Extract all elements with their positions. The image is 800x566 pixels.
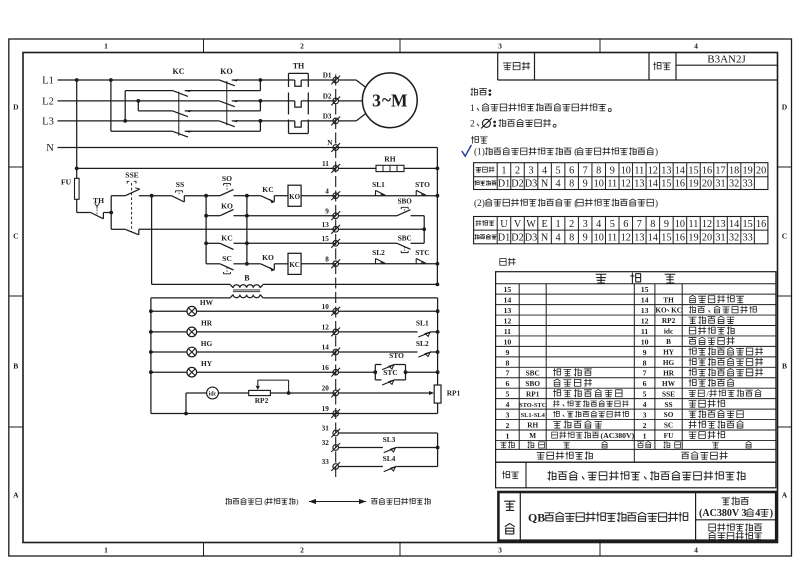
svg-text:L3: L3: [42, 117, 54, 128]
svg-text:L2: L2: [42, 97, 54, 108]
svg-text:SL2: SL2: [416, 339, 429, 348]
svg-text:14: 14: [675, 165, 685, 176]
svg-text:31: 31: [715, 179, 725, 190]
svg-text:4: 4: [505, 400, 509, 409]
svg-text:8: 8: [643, 358, 647, 367]
svg-text:D2: D2: [323, 93, 332, 101]
svg-text:20: 20: [322, 385, 330, 393]
svg-text:13: 13: [661, 165, 671, 176]
svg-text:QB: QB: [528, 510, 545, 524]
svg-text:KC: KC: [173, 67, 185, 76]
svg-text:M: M: [529, 431, 536, 440]
svg-text:4: 4: [325, 187, 329, 195]
svg-text:8: 8: [650, 219, 655, 230]
svg-text:19: 19: [322, 405, 330, 413]
svg-text:SC: SC: [222, 254, 232, 263]
svg-text:8: 8: [569, 233, 574, 244]
svg-text:TH: TH: [663, 295, 674, 304]
svg-text:SBO: SBO: [398, 197, 413, 205]
svg-text:FU: FU: [61, 178, 72, 187]
svg-text:KC: KC: [221, 234, 232, 243]
svg-text:SBO: SBO: [525, 379, 540, 388]
svg-text:15: 15: [688, 165, 698, 176]
svg-text:16: 16: [675, 179, 685, 190]
svg-text:3: 3: [505, 411, 509, 420]
svg-text:18: 18: [729, 165, 739, 176]
svg-text:D2: D2: [511, 179, 523, 190]
svg-text:20: 20: [756, 165, 766, 176]
svg-text:1: 1: [643, 431, 647, 440]
svg-text:8: 8: [325, 255, 329, 263]
svg-text:4: 4: [596, 219, 601, 230]
svg-text:D3: D3: [525, 233, 537, 244]
svg-text:3: 3: [498, 545, 502, 554]
svg-text:KO: KO: [289, 193, 300, 201]
svg-text:): ): [655, 147, 658, 157]
svg-text:HY: HY: [663, 348, 675, 357]
svg-text:B: B: [666, 337, 671, 346]
svg-text:2: 2: [300, 41, 304, 50]
svg-text:4: 4: [694, 545, 698, 554]
svg-text:B: B: [244, 273, 250, 282]
svg-text:9: 9: [505, 348, 509, 357]
svg-text:32: 32: [729, 233, 739, 244]
svg-text:8: 8: [569, 179, 574, 190]
svg-text:19: 19: [688, 233, 698, 244]
svg-text:10: 10: [641, 337, 649, 346]
svg-text:13: 13: [634, 233, 644, 244]
svg-text:14: 14: [729, 219, 739, 230]
svg-text:D2: D2: [511, 233, 523, 244]
svg-text:SL2: SL2: [372, 248, 385, 257]
svg-text:15: 15: [661, 179, 671, 190]
svg-text:14: 14: [641, 296, 649, 305]
svg-text:13: 13: [504, 306, 512, 315]
svg-text:15: 15: [661, 233, 671, 244]
svg-text:14: 14: [504, 296, 512, 305]
svg-text:): ): [296, 497, 299, 506]
svg-text:33: 33: [743, 179, 753, 190]
svg-text:HW: HW: [200, 298, 214, 307]
svg-text:STC: STC: [383, 368, 397, 377]
svg-text:C: C: [13, 232, 18, 241]
svg-text:4: 4: [694, 41, 698, 50]
svg-text:10: 10: [322, 303, 330, 311]
svg-text:14: 14: [648, 179, 658, 190]
svg-text:15: 15: [504, 285, 512, 294]
svg-text:11: 11: [607, 179, 617, 190]
svg-text:13: 13: [715, 219, 725, 230]
svg-text:11: 11: [634, 165, 644, 176]
svg-text:D: D: [782, 103, 788, 112]
svg-text:SSE: SSE: [125, 171, 139, 180]
svg-text:9: 9: [643, 348, 647, 357]
svg-text:SO: SO: [222, 174, 232, 183]
svg-text:KO: KO: [655, 306, 667, 315]
svg-text:12: 12: [322, 324, 330, 332]
svg-text:4: 4: [755, 508, 760, 519]
svg-text:(: (: [574, 147, 577, 157]
svg-text:8: 8: [596, 165, 601, 176]
svg-text:12: 12: [621, 233, 631, 244]
svg-text:11: 11: [607, 233, 617, 244]
svg-text:(2): (2): [474, 199, 485, 209]
svg-text:16: 16: [675, 233, 685, 244]
svg-text:RP2: RP2: [255, 396, 269, 405]
svg-text:1: 1: [556, 219, 561, 230]
svg-text:E: E: [541, 219, 547, 230]
svg-text:4: 4: [556, 179, 561, 190]
svg-text:9: 9: [583, 179, 588, 190]
svg-text:C: C: [782, 232, 787, 241]
svg-text:33: 33: [322, 458, 330, 466]
svg-text:1: 1: [501, 165, 506, 176]
svg-text:SL1: SL1: [372, 180, 385, 189]
svg-text:19: 19: [688, 179, 698, 190]
svg-text:32: 32: [729, 179, 739, 190]
svg-text:20: 20: [702, 233, 712, 244]
svg-text:D1: D1: [498, 179, 510, 190]
svg-text:RP2: RP2: [662, 316, 676, 325]
svg-text:2: 2: [470, 119, 475, 129]
svg-text:HW: HW: [662, 379, 676, 388]
svg-text:11: 11: [689, 219, 699, 230]
svg-text:N: N: [541, 179, 549, 190]
svg-text:12: 12: [641, 316, 649, 325]
svg-text:11: 11: [641, 327, 648, 336]
svg-text:15: 15: [322, 235, 330, 243]
svg-text:31: 31: [322, 425, 330, 433]
svg-text:SS: SS: [176, 180, 184, 189]
svg-text:11: 11: [504, 327, 511, 336]
svg-text:L1: L1: [42, 76, 54, 87]
svg-text:SL1: SL1: [416, 319, 429, 328]
svg-text:20: 20: [702, 179, 712, 190]
svg-text:KO: KO: [262, 253, 274, 262]
svg-text:1: 1: [470, 104, 475, 114]
svg-text:D1: D1: [498, 233, 510, 244]
svg-text:idc: idc: [664, 327, 674, 336]
svg-text:3: 3: [643, 411, 647, 420]
svg-text:6: 6: [505, 379, 509, 388]
svg-text:6: 6: [643, 379, 647, 388]
svg-text:N: N: [541, 233, 549, 244]
svg-text:): ): [770, 508, 773, 519]
svg-text:idc: idc: [209, 391, 217, 397]
svg-text:N: N: [46, 143, 54, 154]
svg-text:U: U: [500, 219, 508, 230]
svg-text:9: 9: [583, 233, 588, 244]
svg-text:17: 17: [715, 165, 725, 176]
svg-text:SSE: SSE: [662, 389, 675, 398]
svg-text:SO: SO: [664, 410, 674, 419]
svg-text:5: 5: [610, 219, 615, 230]
svg-text:31: 31: [715, 233, 725, 244]
svg-text:7: 7: [643, 369, 647, 378]
svg-text:1: 1: [104, 545, 108, 554]
svg-text:19: 19: [743, 165, 753, 176]
svg-text:D3: D3: [525, 179, 537, 190]
svg-text:7: 7: [505, 369, 509, 378]
svg-text:HR: HR: [663, 368, 675, 377]
svg-text:HR: HR: [201, 319, 213, 328]
svg-text:FU: FU: [664, 431, 674, 440]
svg-text:10: 10: [594, 233, 604, 244]
svg-text:STO: STO: [415, 180, 430, 189]
svg-text:13: 13: [634, 179, 644, 190]
svg-text:12: 12: [621, 179, 631, 190]
svg-text:D3: D3: [323, 113, 332, 121]
svg-text:14: 14: [648, 233, 658, 244]
svg-text:12: 12: [504, 316, 512, 325]
svg-text:14: 14: [322, 344, 330, 352]
svg-text:13: 13: [641, 306, 649, 315]
svg-text:5: 5: [556, 165, 561, 176]
svg-text:1: 1: [104, 41, 108, 50]
svg-text:9: 9: [610, 165, 615, 176]
svg-text:(: (: [264, 497, 267, 506]
svg-text:9: 9: [664, 219, 669, 230]
svg-text:2: 2: [643, 421, 647, 430]
svg-text:): ): [655, 198, 658, 208]
svg-text:B: B: [782, 362, 787, 371]
svg-text:6: 6: [569, 165, 574, 176]
svg-text:5: 5: [505, 390, 509, 399]
svg-text:2: 2: [515, 165, 520, 176]
svg-text:RH: RH: [527, 421, 538, 430]
svg-text:KC: KC: [262, 185, 273, 194]
svg-text:SS: SS: [664, 400, 672, 409]
svg-text:10: 10: [621, 165, 631, 176]
svg-text:HY: HY: [201, 359, 213, 368]
svg-text:15: 15: [743, 219, 753, 230]
svg-text:3: 3: [498, 41, 502, 50]
svg-text:SL1-SL4: SL1-SL4: [521, 412, 546, 419]
svg-text:16: 16: [756, 219, 766, 230]
svg-text:SC: SC: [664, 421, 673, 430]
svg-text:SL3: SL3: [383, 435, 396, 444]
svg-text:10: 10: [504, 337, 512, 346]
svg-text:2: 2: [569, 219, 574, 230]
svg-text:16: 16: [322, 364, 330, 372]
svg-text:(AC380V 3: (AC380V 3: [699, 508, 746, 519]
svg-text:D1: D1: [323, 72, 332, 80]
svg-text:2: 2: [300, 545, 304, 554]
svg-text:W: W: [526, 219, 536, 230]
svg-text:16: 16: [702, 165, 712, 176]
svg-text:B3AN2J: B3AN2J: [707, 53, 746, 65]
svg-text:SBC: SBC: [398, 234, 412, 242]
svg-text:(1): (1): [474, 148, 485, 158]
svg-text:STO-STC: STO-STC: [519, 402, 547, 409]
svg-text:(AC380V): (AC380V): [601, 431, 635, 440]
svg-text:N: N: [327, 139, 333, 147]
svg-text:5: 5: [643, 390, 647, 399]
svg-text:V: V: [514, 219, 522, 230]
svg-text:SBC: SBC: [526, 368, 540, 377]
svg-text:4: 4: [542, 165, 547, 176]
svg-text:KC: KC: [671, 306, 682, 315]
svg-text:3~M: 3~M: [372, 89, 408, 110]
svg-text:RP1: RP1: [447, 389, 461, 398]
svg-text:D: D: [13, 103, 19, 112]
svg-text:11: 11: [322, 160, 329, 168]
svg-text:KC: KC: [289, 261, 300, 269]
svg-text:3: 3: [528, 165, 533, 176]
svg-text:HG: HG: [201, 339, 213, 348]
svg-text:4: 4: [643, 400, 647, 409]
svg-text:12: 12: [702, 219, 712, 230]
svg-text:A: A: [782, 491, 788, 500]
svg-text:32: 32: [322, 439, 330, 447]
svg-text:9: 9: [325, 207, 329, 215]
svg-text:15: 15: [641, 285, 649, 294]
svg-text:SL4: SL4: [383, 454, 396, 463]
svg-text:STO: STO: [389, 351, 404, 360]
svg-text:6: 6: [623, 219, 628, 230]
svg-text:3: 3: [583, 219, 588, 230]
svg-text:HG: HG: [663, 358, 675, 367]
svg-text:1: 1: [505, 431, 509, 440]
svg-text:10: 10: [594, 179, 604, 190]
svg-text:4: 4: [556, 233, 561, 244]
svg-text:KO: KO: [221, 202, 233, 211]
svg-text:12: 12: [648, 165, 658, 176]
svg-text:KO: KO: [220, 67, 232, 76]
svg-text:8: 8: [505, 358, 509, 367]
svg-text:33: 33: [743, 233, 753, 244]
svg-text:A: A: [13, 491, 19, 500]
svg-text:2: 2: [505, 421, 509, 430]
svg-text:7: 7: [583, 165, 588, 176]
svg-text:7: 7: [637, 219, 642, 230]
svg-text:B: B: [13, 362, 18, 371]
svg-text:RH: RH: [384, 155, 395, 164]
svg-text:13: 13: [322, 221, 330, 229]
svg-text:10: 10: [675, 219, 685, 230]
svg-text:TH: TH: [293, 62, 305, 71]
svg-text:STC: STC: [415, 248, 429, 257]
svg-text:RP1: RP1: [526, 389, 540, 398]
